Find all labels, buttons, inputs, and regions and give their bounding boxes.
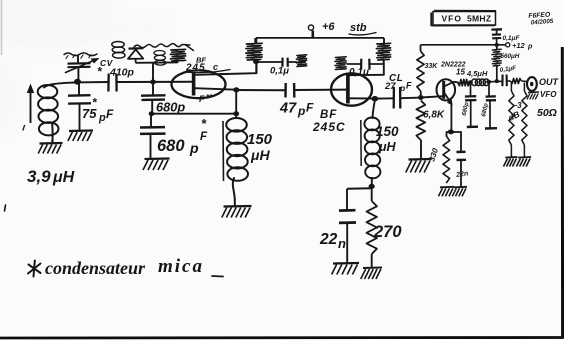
rail +6 stb	[256, 37, 384, 39]
T3 emitter lead	[444, 93, 453, 132]
resistor 330	[443, 132, 451, 183]
label asterisk 75pF	[92, 96, 98, 110]
capacitor 22n (mid)	[339, 189, 356, 263]
T2 drain lead	[349, 74, 384, 76]
svg-text:560μH: 560μH	[501, 53, 520, 60]
connector OUT	[527, 77, 537, 91]
svg-text:VFO: VFO	[442, 14, 462, 24]
node G junction dot	[372, 96, 379, 102]
label -3dB	[507, 101, 523, 123]
wire varicap net down	[152, 63, 154, 81]
capacitor 0,1u (1)	[256, 58, 297, 67]
capacitor 0,1u (2)	[347, 59, 384, 70]
ground under 330	[438, 187, 454, 197]
wire choke down	[496, 66, 498, 81]
label +12 p	[512, 41, 533, 51]
label 0,1u (1)	[270, 66, 289, 77]
resistor 270	[367, 186, 377, 267]
svg-text:47: 47	[279, 101, 297, 117]
svg-text:VFO: VFO	[540, 90, 557, 99]
node C junction dot	[233, 87, 239, 92]
capacitor 680p (out1)	[465, 84, 477, 126]
terminal +6	[308, 25, 313, 38]
svg-text:4,5μH: 4,5μH	[466, 69, 488, 78]
label 22n (T3)	[455, 170, 469, 179]
capacitor 0,1uF (top)	[492, 34, 501, 44]
label 2N2222	[440, 62, 466, 69]
label 560uH	[501, 53, 520, 60]
svg-text:p: p	[98, 112, 106, 124]
wire bus 410p to gate	[117, 81, 194, 83]
svg-text:410p: 410p	[109, 67, 135, 79]
resistor 15	[458, 79, 470, 85]
resistor pad shunt 1	[509, 83, 514, 158]
wire CL to base node	[401, 97, 419, 100]
varicap diode D1	[128, 48, 144, 62]
label CV	[100, 58, 114, 68]
label 04/2005	[531, 18, 554, 27]
label 410p	[109, 67, 135, 79]
inductor L1 3,9uH	[38, 83, 74, 144]
choke RFC2	[376, 38, 390, 65]
svg-text:33K: 33K	[425, 63, 439, 70]
note condensateur mica	[45, 256, 223, 278]
squiggle top line	[134, 44, 194, 51]
capacitor 75pF	[68, 82, 91, 131]
svg-text:0,1μ: 0,1μ	[270, 66, 289, 77]
label 15	[456, 68, 465, 77]
ground under pad shunt 2	[516, 157, 531, 167]
scribble element (small coil)	[154, 51, 166, 66]
svg-text:150: 150	[376, 124, 399, 139]
label 6,8K	[423, 110, 445, 121]
ground under 22n (mid)	[332, 263, 359, 275]
inductor 150uH (1) core	[222, 121, 225, 181]
paper left edge mark	[1, 0, 3, 55]
svg-text:**: **	[206, 93, 213, 102]
svg-text:680: 680	[157, 137, 185, 155]
resistor 33K	[417, 45, 424, 95]
label F6FEO	[528, 11, 551, 20]
T1 drain lead	[195, 73, 256, 75]
rail +12	[421, 44, 506, 46]
label 22n (mid)	[319, 231, 346, 251]
node J junction dot	[448, 129, 454, 134]
svg-text:F: F	[199, 94, 205, 104]
label 47pF	[279, 101, 314, 119]
title text VFO 5MHZ	[442, 14, 492, 24]
capacitor CL 27pF	[394, 87, 401, 109]
capacitor 680p (2)	[140, 114, 166, 159]
wire drain2 up	[383, 64, 385, 75]
node M junction dot	[494, 43, 499, 47]
capacitor 680p (out2)	[486, 83, 496, 128]
inductor 4,5uH	[472, 79, 490, 86]
cap end bar (out1)	[467, 125, 478, 128]
choke 560uH	[492, 45, 501, 66]
choke RFC1	[246, 38, 262, 60]
capacitor 410p	[108, 74, 116, 92]
terminal +12	[506, 43, 510, 47]
wire node C to 47pF	[236, 89, 285, 91]
transistor T2 BF245C	[331, 73, 372, 105]
scribble element (hatch coil)	[170, 49, 185, 63]
svg-text:+12: +12	[512, 41, 526, 50]
label 0,1uF (top)	[503, 35, 521, 42]
wire 680p bus	[152, 113, 237, 115]
label asterisk CV	[97, 65, 103, 79]
scribble ground (0,1u 2)	[335, 57, 346, 70]
wire to pad	[507, 80, 511, 82]
label F* (2)	[200, 116, 208, 143]
ground under 6,8K	[406, 159, 432, 173]
label 245C (T2)	[312, 120, 346, 134]
transistor T1 BF245C	[172, 70, 226, 98]
note asterisk	[28, 261, 41, 277]
svg-text:680p: 680p	[156, 100, 185, 115]
wire L1 to ground	[51, 140, 53, 144]
capacitor 22n (T3)	[451, 132, 466, 187]
resistor 6,8K	[416, 101, 425, 160]
label 245c (T1)	[185, 62, 230, 74]
arrow (variable inductor) L1	[27, 84, 34, 124]
label 150uH (1)	[247, 131, 273, 163]
T3 collector lead	[444, 82, 458, 87]
label 680p (out1)	[462, 101, 471, 116]
label 270	[373, 223, 402, 241]
capacitor 47pF	[286, 83, 295, 98]
label 0,1uF (series)	[499, 65, 516, 74]
transistor T3 2N2222	[437, 79, 456, 100]
svg-text:c: c	[213, 62, 218, 72]
node E junction dot	[149, 111, 155, 116]
label BF (T2)	[320, 109, 337, 121]
node I junction dot	[369, 184, 375, 189]
svg-text:270: 270	[373, 223, 402, 241]
label 27pF	[384, 81, 412, 94]
T1 source lead	[195, 88, 236, 90]
wire out line	[489, 80, 502, 83]
label 680p (2)	[157, 137, 199, 156]
svg-text:50Ω: 50Ω	[537, 107, 557, 119]
node L junction dot	[486, 80, 491, 84]
svg-text:p: p	[527, 44, 533, 51]
svg-text:22: 22	[319, 231, 338, 248]
label 33K	[425, 63, 439, 70]
resistor pad shunt 2	[522, 83, 527, 158]
connector OUT ground	[527, 92, 539, 100]
ground under 75pF	[68, 131, 93, 142]
svg-text:p: p	[297, 104, 305, 118]
inductor 150uH (2)	[364, 99, 380, 186]
svg-text:F: F	[306, 101, 314, 115]
stray mark comma	[23, 126, 25, 131]
label 330	[427, 147, 440, 163]
T2 source lead	[350, 97, 373, 99]
ground under L1	[38, 143, 62, 154]
svg-text:μH: μH	[250, 147, 270, 163]
svg-text:0,1μF: 0,1μF	[503, 35, 521, 42]
svg-text:5MHZ: 5MHZ	[467, 14, 491, 24]
svg-text:15: 15	[456, 68, 465, 77]
svg-text:stb: stb	[350, 22, 367, 34]
svg-text:F: F	[406, 81, 412, 91]
svg-text:condensateur: condensateur	[45, 258, 146, 278]
ground under pad shunt 1	[504, 157, 518, 167]
node A junction dot	[74, 79, 81, 85]
svg-text:μH: μH	[52, 169, 75, 186]
capacitor 0,1uF (series)	[502, 75, 506, 87]
title box VFO 5MHZ	[431, 10, 496, 26]
label 75pF	[82, 106, 114, 124]
node B junction dot	[150, 80, 156, 85]
ground top (0,1uF top)	[491, 29, 502, 34]
node H junction dot	[418, 95, 424, 100]
scribble ground (0,1u 1)	[296, 55, 306, 67]
label OUT	[539, 77, 560, 87]
scribble coil (doodle)	[112, 42, 125, 59]
label BF (T1)	[196, 56, 206, 65]
wire pad to out	[522, 80, 528, 83]
node F junction dot	[253, 59, 259, 64]
wire main bus left	[74, 81, 108, 83]
inductor 150uH (2) core	[360, 120, 362, 166]
label CL	[389, 73, 403, 84]
svg-text:245C: 245C	[312, 120, 346, 134]
wire node C down	[235, 90, 237, 114]
svg-text:75: 75	[82, 106, 97, 121]
ground under 680p (2)	[143, 159, 170, 171]
node N junction dot	[495, 79, 499, 83]
label 0,1u (2)	[349, 67, 369, 78]
trimmer capacitor CV	[64, 53, 100, 81]
inductor 150uH (1)	[226, 114, 248, 206]
wire 47pF to gate2	[295, 89, 348, 91]
border right	[561, 47, 564, 339]
svg-text:6,8K: 6,8K	[423, 110, 445, 121]
svg-text:p: p	[189, 140, 199, 156]
wire node I left	[347, 187, 372, 189]
svg-text:F: F	[200, 131, 208, 143]
node K junction dot	[468, 80, 473, 84]
label 680p (1)	[156, 100, 185, 115]
svg-text:+6: +6	[322, 21, 335, 33]
resistor pad series	[511, 78, 522, 83]
svg-text:mica: mica	[158, 256, 204, 277]
svg-text:−3: −3	[513, 101, 523, 110]
label 50 ohm	[537, 107, 557, 119]
node D junction dot	[233, 111, 239, 116]
label F** (1)	[199, 93, 213, 104]
wire base T3	[421, 96, 443, 97]
cap end bar (out2)	[485, 127, 497, 130]
label 4,5uH	[466, 69, 488, 78]
wire drain1 up	[255, 61, 257, 74]
svg-text:OUT: OUT	[539, 77, 560, 87]
svg-text:3,9: 3,9	[27, 167, 51, 186]
ground under 270	[361, 268, 382, 280]
svg-text:F: F	[106, 107, 114, 121]
capacitor 680p (1)	[141, 84, 166, 114]
label +6 stb	[322, 21, 376, 35]
svg-text:150: 150	[247, 131, 273, 148]
svg-text:μH: μH	[378, 140, 397, 154]
label 150uH (2)	[376, 124, 399, 154]
wire node G to CL	[377, 97, 394, 99]
ground under 22n (T3)	[452, 187, 467, 197]
label 680p (out2)	[481, 102, 490, 117]
border bottom	[0, 336, 563, 339]
stray mark apostrophe	[5, 205, 6, 211]
wire varicap bus	[136, 61, 178, 63]
label 3,9uH	[27, 167, 75, 186]
ground under 150uH (1)	[222, 206, 252, 218]
label VFO	[540, 90, 557, 99]
svg-text:n: n	[338, 236, 346, 251]
